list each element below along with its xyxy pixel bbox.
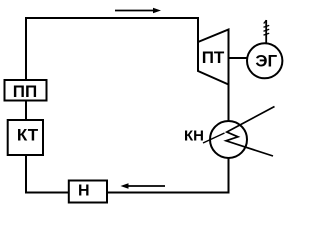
- superheater ПП: [5, 80, 47, 101]
- wire: vertical down into turbine: [197, 17, 199, 43]
- label КН with leader line: [184, 128, 225, 145]
- steam turbine ПТ: [198, 30, 229, 85]
- generator ЭГ: [247, 43, 282, 78]
- svg-text:КТ: КТ: [17, 126, 39, 145]
- svg-text:Н: Н: [78, 183, 90, 200]
- svg-text:ПТ: ПТ: [202, 48, 225, 67]
- flow arrow (condensate to pump): [121, 183, 166, 189]
- pump Н: [69, 181, 107, 203]
- svg-text:КН: КН: [184, 128, 204, 145]
- flow arrow (steam to turbine): [115, 8, 161, 14]
- wire: bottom right horizontal from condenser to pump: [108, 192, 230, 194]
- wire: bottom left horizontal to pump: [25, 192, 69, 194]
- wire: turbine exhaust down to condenser: [228, 84, 230, 122]
- boiler КТ: [8, 120, 43, 155]
- condenser КН circle: [210, 121, 247, 158]
- svg-text:ПП: ПП: [13, 82, 37, 101]
- wire: ПП to КТ: [25, 100, 27, 121]
- wire: top horizontal: [25, 17, 198, 19]
- wire: left vertical from top wire down to ПП: [25, 17, 27, 81]
- cooling water zigzag through condenser: [226, 107, 275, 157]
- shaft: turbine to generator: [229, 57, 247, 59]
- wire: КТ down to bottom wire: [25, 155, 27, 194]
- grid connection line above generator: [264, 20, 270, 44]
- wire: condenser down to bottom wire: [228, 158, 230, 194]
- svg-text:ЭГ: ЭГ: [255, 52, 277, 71]
